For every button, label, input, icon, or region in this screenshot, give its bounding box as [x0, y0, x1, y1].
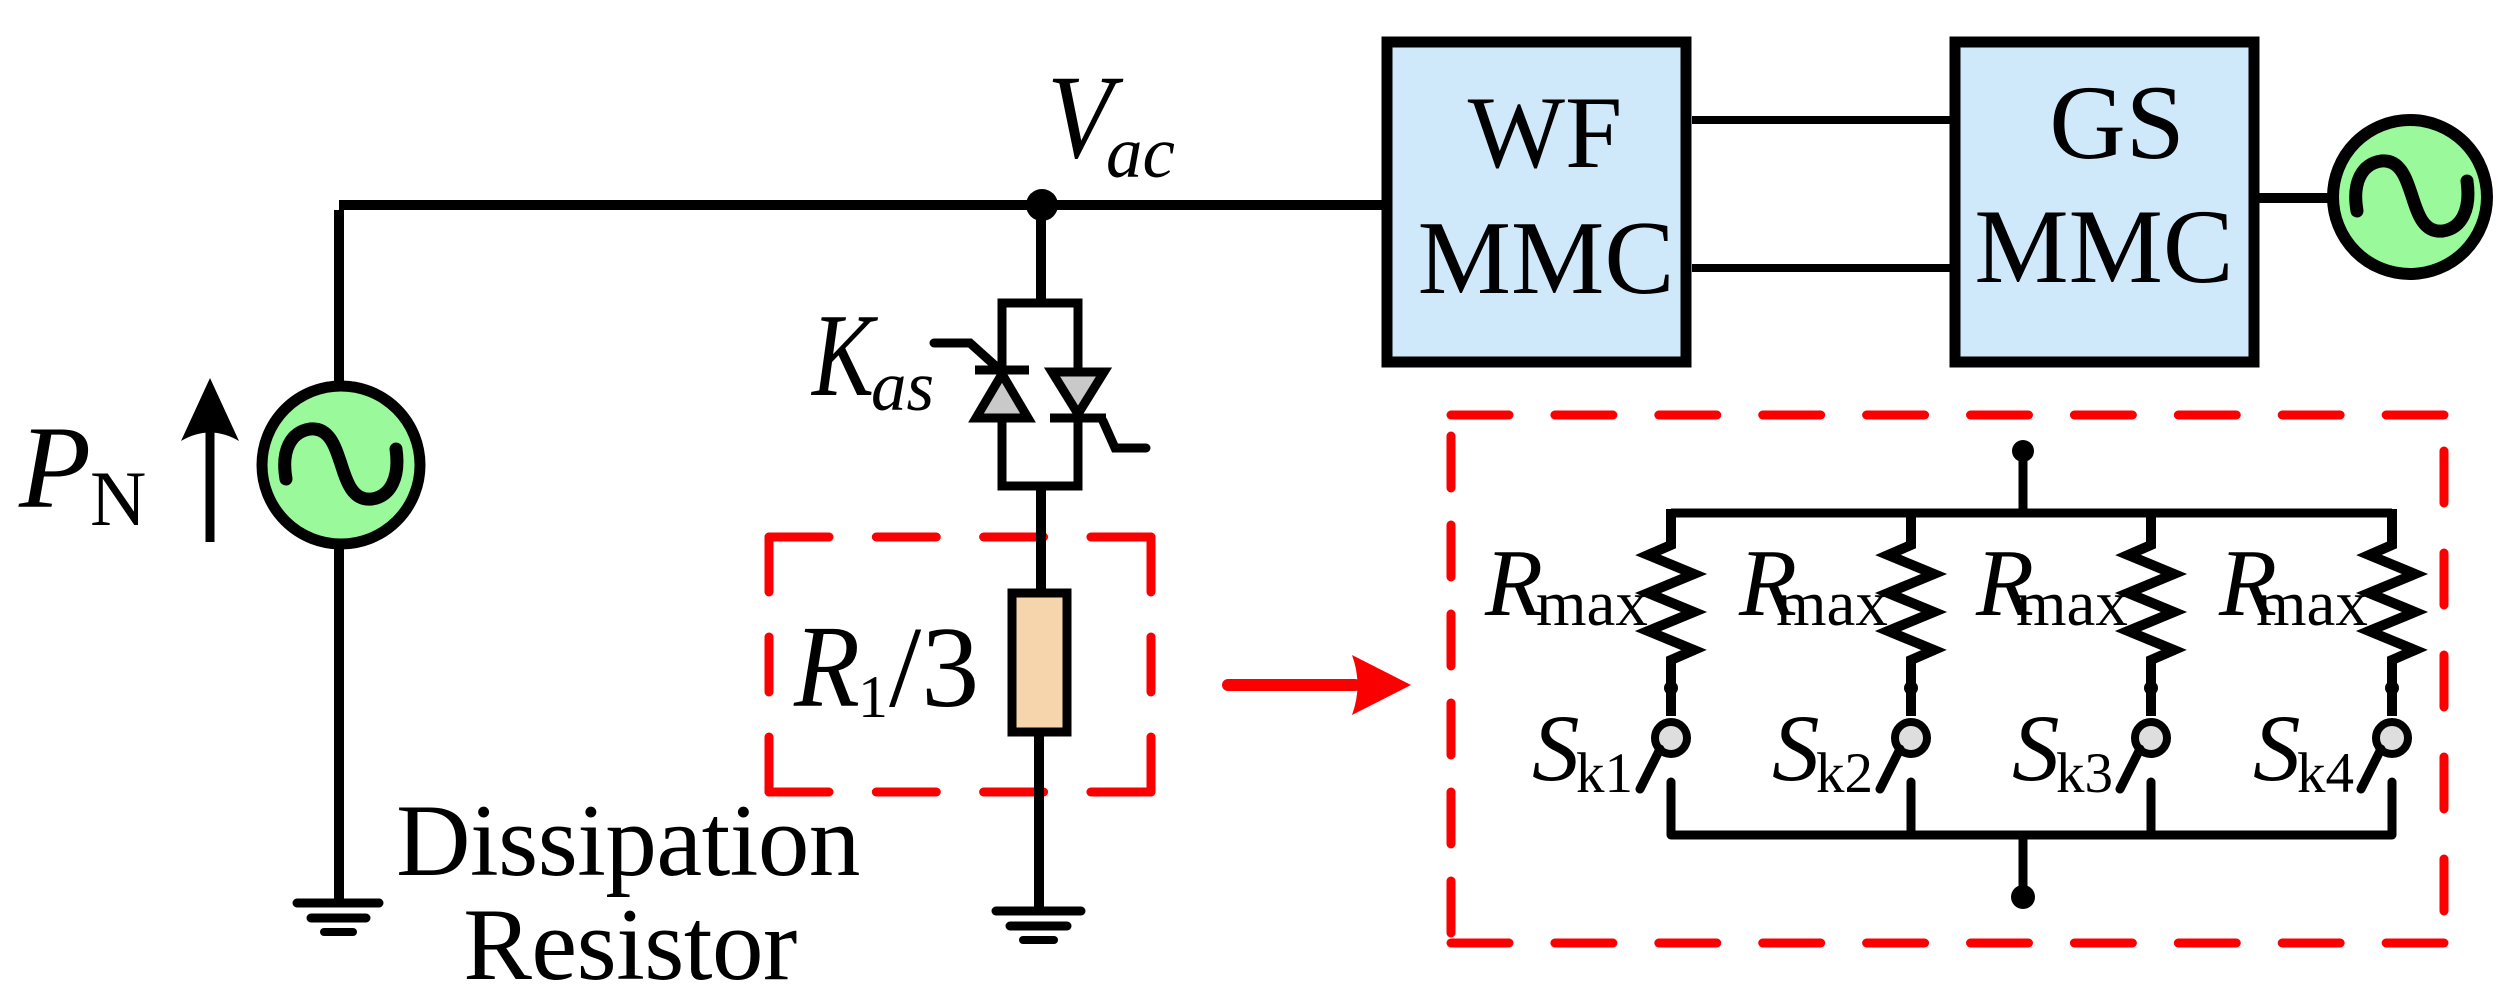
- switch S_k1 knob: [1655, 722, 1687, 754]
- resistor bank: bottom terminal dot: [2011, 885, 2035, 909]
- svg-text:max: max: [1776, 568, 1888, 640]
- switch S_k1 lever: [1640, 749, 1660, 789]
- wire: resistor down to ground: [1034, 736, 1044, 911]
- svg-text:as: as: [871, 348, 934, 426]
- red arrow from R1/3 box to resistor-bank detail: [1228, 655, 1411, 715]
- AC grid source (green circle with sine, right): [2333, 120, 2487, 274]
- svg-text:S: S: [2253, 695, 2301, 801]
- svg-text:1: 1: [858, 664, 888, 730]
- wire: bottom rail: [1671, 831, 2392, 840]
- GS MMC converter block: [1955, 42, 2254, 362]
- thyristor right (triangle): [1052, 372, 1104, 414]
- switch S_k2 lever: [1880, 749, 1900, 789]
- label Rmax (branch 2): [1738, 530, 1888, 640]
- gate lead left thyristor: [934, 343, 1000, 370]
- gate lead right thyristor: [1103, 421, 1146, 448]
- big red dashed box (resistor bank detail): [1451, 415, 2444, 943]
- svg-text:max: max: [1536, 568, 1648, 640]
- ground (below dissipation resistor): [996, 911, 1081, 940]
- svg-text:R: R: [793, 601, 860, 732]
- wire: lower DC link: [1692, 264, 1950, 272]
- svg-text:N: N: [90, 455, 146, 542]
- label Rmax (branch 3): [1975, 530, 2128, 640]
- label S_k4: [2253, 695, 2354, 805]
- svg-text:R: R: [1484, 530, 1543, 636]
- switch S_k3 lever: [2120, 749, 2140, 789]
- switch S_k2 knob: [1895, 722, 1927, 754]
- wire: branch 2 bottom stub: [1907, 782, 1916, 835]
- contact dot branch 3: [2144, 681, 2158, 695]
- resistor Rmax (branch 4 zigzag): [2369, 509, 2415, 716]
- label S_k2: [1772, 695, 1873, 805]
- svg-text:k1: k1: [1576, 742, 1633, 805]
- contact dot branch 1: [1664, 681, 1678, 695]
- wire: P_N source down to ground: [334, 544, 344, 903]
- resistor bank: top terminal dot: [2012, 440, 2034, 462]
- label S_k1: [1532, 695, 1633, 805]
- svg-text:GS: GS: [2049, 64, 2185, 181]
- label K_as: [810, 289, 934, 426]
- wire: node down to thyristor valve: [1036, 205, 1046, 303]
- label Rmax (branch 1): [1484, 530, 1648, 640]
- svg-text:P: P: [18, 402, 91, 533]
- svg-text:Resistor: Resistor: [463, 888, 797, 1002]
- contact dot branch 2: [1904, 681, 1918, 695]
- svg-text:MMC: MMC: [1418, 199, 1675, 316]
- wire: riser from P_N source up to bus: [334, 210, 344, 382]
- red dashed box around R1/3: [769, 537, 1151, 792]
- switch S_k3 knob: [2135, 722, 2167, 754]
- wire: branch 4 bottom stub: [2388, 782, 2397, 835]
- svg-text:max: max: [2256, 568, 2368, 640]
- resistor Rmax (branch 3 zigzag): [2128, 509, 2174, 716]
- thyristor left (triangle): [976, 374, 1028, 418]
- label Rmax (branch 4): [2218, 530, 2368, 640]
- valve box: [1002, 303, 1078, 486]
- svg-text:S: S: [2012, 695, 2060, 801]
- switch S_k4 knob: [2376, 722, 2408, 754]
- node V_ac (junction dot): [1026, 189, 1058, 221]
- svg-text:k3: k3: [2056, 742, 2113, 805]
- svg-text:S: S: [1772, 695, 1820, 801]
- svg-text:S: S: [1532, 695, 1580, 801]
- wire: top rail: [1671, 509, 2392, 518]
- AC source P_N (green circle with sine): [262, 386, 420, 544]
- arrow: P_N power direction (up): [181, 378, 239, 542]
- wire: top terminal stub: [2019, 451, 2028, 513]
- switch S_k4 lever: [2361, 749, 2381, 789]
- thyristor left (cathode bar): [975, 366, 1029, 375]
- wire: branch 3 bottom stub: [2147, 782, 2156, 835]
- dissipation resistor R1/3 (tan body): [1012, 593, 1067, 732]
- contact dot branch 4: [2385, 681, 2399, 695]
- WF MMC converter block: [1387, 42, 1686, 362]
- label Dissipation Resistor: [396, 784, 860, 1002]
- ground (left, below P_N source): [297, 903, 379, 932]
- svg-text:Dissipation: Dissipation: [396, 784, 860, 898]
- label R_1/3: [793, 601, 979, 732]
- thyristor valve K_as (anti-parallel thyristor pair in box): [934, 303, 1146, 486]
- resistor Rmax (branch 2 zigzag): [1888, 509, 1934, 716]
- label P_N: [18, 402, 146, 542]
- thyristor right (cathode bar): [1050, 414, 1106, 423]
- wire: bottom terminal stub: [2019, 835, 2028, 897]
- svg-text:k2: k2: [1816, 742, 1873, 805]
- svg-text:k4: k4: [2297, 742, 2354, 805]
- svg-text:max: max: [2016, 568, 2128, 640]
- svg-text:/3: /3: [889, 604, 979, 732]
- label S_k3: [2012, 695, 2113, 805]
- svg-text:K: K: [810, 289, 878, 421]
- resistor Rmax (branch 1 zigzag): [1648, 509, 1694, 716]
- wire: main AC bus from source riser to WF MMC: [339, 200, 1383, 210]
- label V_ac: [1047, 50, 1175, 193]
- wire: valve to dissipation resistor: [1036, 486, 1046, 592]
- svg-text:MMC: MMC: [1974, 188, 2233, 305]
- wire: branch 1 bottom stub: [1667, 782, 1676, 835]
- DC link wires between WF MMC and GS MMC: [1692, 116, 1950, 124]
- wire: GS MMC to grid source: [2259, 193, 2332, 203]
- svg-text:ac: ac: [1106, 112, 1175, 193]
- svg-text:WF: WF: [1468, 76, 1623, 190]
